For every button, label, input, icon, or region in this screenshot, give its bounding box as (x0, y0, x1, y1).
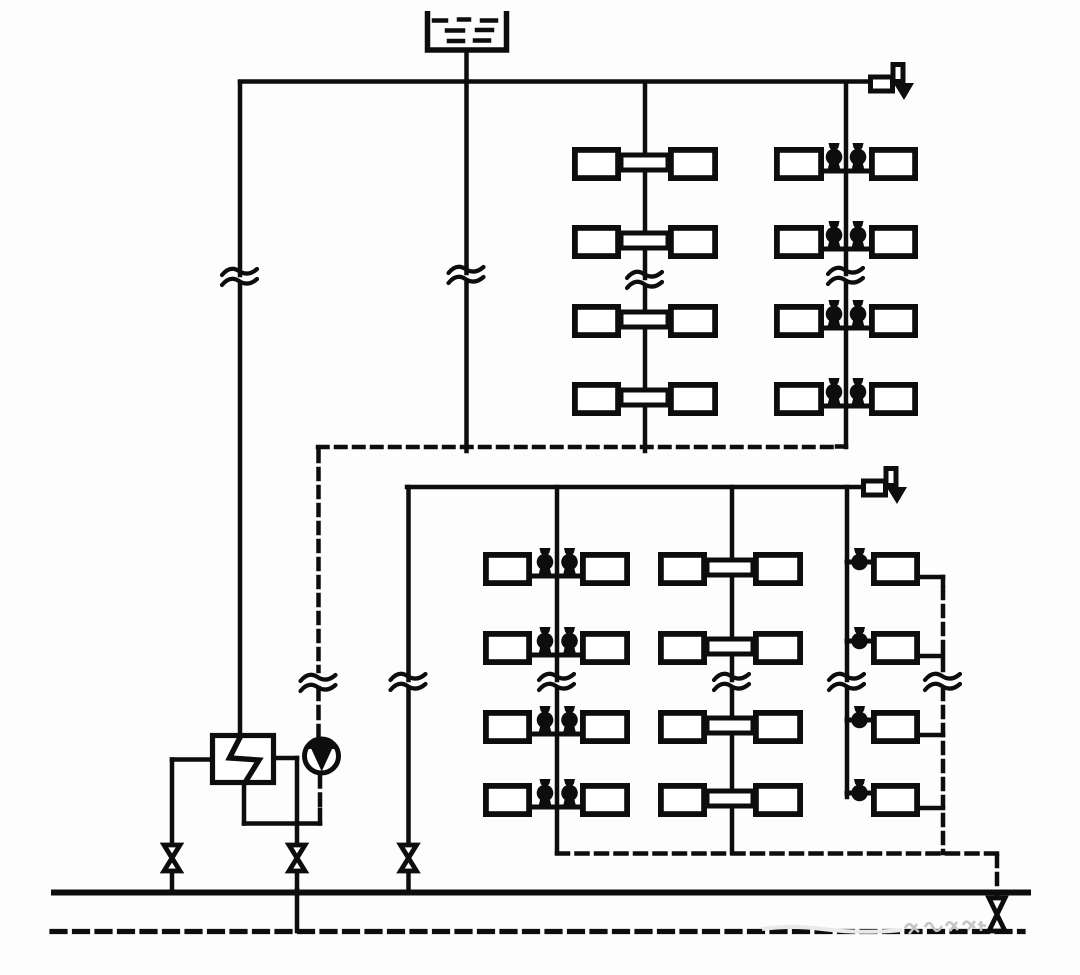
radiator B1-3L (486, 713, 529, 741)
radiator B1-2L (486, 634, 529, 662)
radiator T2-4R (872, 385, 915, 413)
radiator B1-3R (583, 713, 627, 741)
wire HX right down (295, 758, 300, 844)
valve B1-1a (537, 554, 554, 571)
break symbol pump line (301, 675, 336, 681)
valve B1-4a (537, 785, 554, 802)
radiator B2-2R (756, 634, 800, 662)
wire outlet hook row1 (941, 577, 946, 585)
sleeve connector B2-1 (707, 560, 753, 575)
sleeve connector T1-4 (621, 390, 668, 405)
valve B3-1 (851, 554, 868, 571)
wire header left drop lower (406, 688, 411, 844)
wire dashed below pump (318, 776, 323, 812)
radiator T2-1L (777, 150, 821, 178)
wire pipe B1-1 (532, 574, 580, 579)
pump P1 (305, 739, 339, 773)
wire V2 to main (295, 871, 300, 890)
wire riser T1 upper (643, 82, 648, 278)
radiator B2-2L (661, 634, 704, 662)
wire left supply drop upper (238, 82, 243, 275)
wire pump elbow (318, 810, 323, 824)
valve T2-2b (850, 227, 867, 244)
radiator B2-3R (756, 713, 800, 741)
radiator T2-4L (777, 385, 821, 413)
wire left supply drop lower (238, 283, 243, 733)
wire pipe T2-3 (824, 326, 869, 331)
wire outlet B3-3 (920, 733, 943, 738)
break symbol riser T2 (828, 268, 863, 274)
wire riser T2 upper (844, 82, 849, 274)
valve V2 (289, 845, 305, 871)
wire tank riser upper (464, 82, 469, 273)
air vent top (871, 77, 893, 91)
wire riser B3 lower (845, 688, 850, 797)
wire riser B3 upper (845, 487, 850, 680)
radiator T1-1L (575, 150, 618, 178)
wire outlet B3-1 (920, 575, 943, 580)
wire pipe T2-4 (824, 404, 869, 409)
heat exchanger HX1 (213, 736, 274, 783)
sleeve connector T1-2 (621, 233, 668, 248)
wire upper return dashed drop lower (316, 688, 321, 736)
wire header left drop upper (406, 487, 411, 680)
wire riser T2 lower (844, 282, 849, 447)
radiator B2-4R (756, 786, 800, 814)
break symbol riser T1 (627, 272, 662, 278)
wire lower return drop dashed (995, 856, 1000, 898)
wire HX right port (274, 756, 297, 761)
sleeve connector T1-3 (621, 312, 668, 327)
watermark (762, 921, 986, 934)
radiator T2-3L (777, 307, 821, 335)
valve T2-4a (826, 384, 843, 401)
radiator T2-2R (872, 228, 915, 256)
air vent lower (864, 481, 886, 495)
break symbol riser B3 (829, 674, 864, 680)
radiator B1-2R (583, 634, 627, 662)
valve V4 (989, 898, 1005, 931)
valve V1 (164, 845, 180, 871)
radiator T1-2R (671, 228, 715, 256)
valve T2-4b (850, 384, 867, 401)
valve T2-3b (850, 306, 867, 323)
wire tank stub (464, 52, 469, 80)
wire stub B3-3 (847, 718, 871, 723)
radiator B3-2 (874, 634, 917, 662)
radiator T1-3R (671, 307, 715, 335)
wire HX bottom horizontal (244, 821, 320, 826)
expansion tank (428, 11, 507, 50)
radiator B1-4R (583, 786, 627, 814)
sleeve connector B2-4 (707, 791, 753, 806)
radiator B3-3 (874, 713, 917, 741)
radiator B2-3L (661, 713, 704, 741)
break symbol return vertical (925, 674, 960, 680)
wire HX left port (172, 757, 210, 762)
wire riser B1 lower (555, 688, 560, 853)
valve B3-2 (851, 633, 868, 650)
break symbol header drop (391, 674, 426, 680)
radiator B1-1R (583, 555, 627, 583)
wire stub B3-1 (847, 560, 871, 565)
wire pipe B1-4 (532, 805, 580, 810)
wire lower header (407, 485, 861, 490)
wire pipe B1-2 (532, 653, 580, 658)
wire pipe B1-3 (532, 732, 580, 737)
radiator B1-1L (486, 555, 529, 583)
wire HX bottom port (242, 785, 247, 824)
wire network supply main (54, 890, 1028, 896)
wire network return main dashed (52, 929, 1023, 934)
valve T2-1a (826, 149, 843, 166)
wire pipe T2-1 (824, 169, 869, 174)
wire HX left down (170, 760, 175, 845)
valve T2-3a (826, 306, 843, 323)
wire outlet B3-4 (920, 806, 943, 811)
valve B3-3 (851, 712, 868, 729)
radiator T2-1R (872, 150, 915, 178)
wire riser B2 upper (730, 487, 735, 680)
valve B3-4 (851, 785, 868, 802)
sleeve connector B2-2 (707, 639, 753, 654)
wire V1 to main (170, 871, 175, 890)
wire tank riser lower (464, 281, 469, 451)
radiator T2-3R (872, 307, 915, 335)
radiator T2-2L (777, 228, 821, 256)
break symbol tank riser (449, 267, 484, 273)
wire return dashed vertical upper (941, 588, 946, 673)
wire stub B3-2 (847, 639, 871, 644)
wire V3 to main (406, 871, 411, 890)
wire riser T1 lower (643, 286, 648, 451)
radiator B3-1 (874, 555, 917, 583)
valve T2-2a (826, 227, 843, 244)
radiator T1-3L (575, 307, 618, 335)
wire return dashed vertical lower (941, 689, 946, 853)
wire riser T2 elbow to return (837, 444, 846, 449)
break symbol left drop (222, 269, 257, 275)
sleeve connector T1-1 (621, 155, 668, 170)
wire upper return dashed horizontal (318, 445, 836, 450)
wire main to dashed main (295, 890, 300, 931)
wire pipe T2-2 (824, 247, 869, 252)
radiator T1-4L (575, 385, 618, 413)
valve B1-2b (561, 633, 578, 650)
valve B1-3b (561, 712, 578, 729)
radiator T1-2L (575, 228, 618, 256)
wire lower return dashed (557, 851, 997, 856)
valve B1-4b (561, 785, 578, 802)
valve T2-1b (850, 149, 867, 166)
valve B1-3a (537, 712, 554, 729)
wire top supply main (240, 79, 868, 84)
radiator B2-1R (756, 555, 800, 583)
sleeve connector B2-3 (707, 718, 753, 733)
radiator T1-4R (671, 385, 715, 413)
radiator B1-4L (486, 786, 529, 814)
wire upper return dashed drop upper (316, 451, 321, 671)
break symbol riser B1 (539, 674, 574, 680)
wire outlet B3-2 (920, 654, 943, 659)
wire riser B1 upper (555, 487, 560, 680)
break symbol riser B2 (714, 674, 749, 680)
valve B1-2a (537, 633, 554, 650)
radiator B3-4 (874, 786, 917, 814)
valve V3 (401, 845, 417, 871)
radiator T1-1R (671, 150, 715, 178)
radiator B2-4L (661, 786, 704, 814)
radiator B2-1L (661, 555, 704, 583)
wire stub B3-4 (847, 791, 871, 796)
wire riser B2 lower (730, 688, 735, 853)
valve B1-1b (561, 554, 578, 571)
